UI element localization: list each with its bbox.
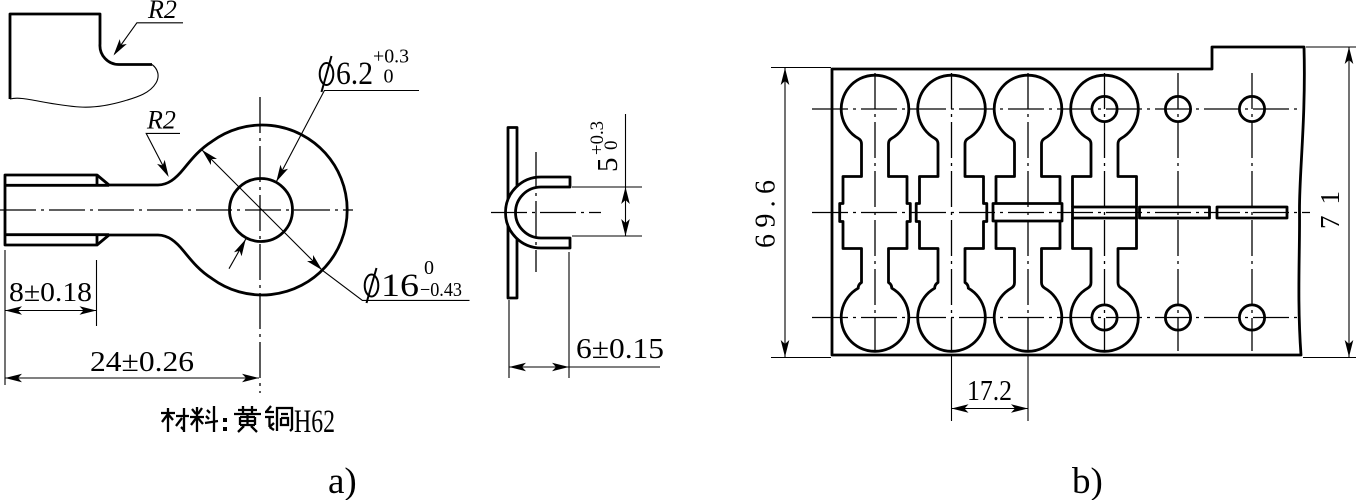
- centerline column 5: [1177, 73, 1179, 351]
- parting slot rectangle station 4: [1073, 207, 1137, 218]
- bent flange inner edge bottom: [5, 233, 109, 236]
- material text: [161, 404, 335, 440]
- svg-text:b): b): [1072, 461, 1103, 500]
- centerline column 1: [874, 73, 876, 351]
- R2 label detail: [110, 0, 183, 58]
- svg-text:−0.43: −0.43: [420, 279, 462, 301]
- svg-text:24±0.26: 24±0.26: [90, 346, 194, 378]
- detail view top-left corner blank: [10, 14, 158, 107]
- punched slot contour top half station 4: [1071, 75, 1139, 207]
- bent flange inner edge top: [5, 184, 109, 187]
- pilot hole station 5 top: [1165, 96, 1190, 121]
- side view flat blank plate: [508, 128, 517, 299]
- svg-text:6.2: 6.2: [336, 56, 373, 92]
- parting slot rectangle station 6: [1217, 207, 1287, 218]
- phi6.2 dimension: [229, 46, 419, 269]
- pilot hole station 6 bottom: [1239, 305, 1264, 330]
- svg-text:6±0.15: 6±0.15: [576, 333, 664, 365]
- centerline vertical side view: [535, 152, 537, 272]
- centerline horizontal side view: [491, 212, 601, 214]
- punched slot contour bottom half station 3: [994, 221, 1062, 351]
- 6 +-0.15 dimension: [509, 252, 664, 378]
- centerline bottom row: [812, 317, 1300, 319]
- centerline vertical of head: [259, 97, 261, 393]
- svg-text:a): a): [328, 461, 357, 500]
- parting slot rectangle station 5: [1140, 207, 1210, 218]
- 8 +-0.18 dimension: [5, 250, 97, 385]
- tong: [265, 406, 274, 430]
- centerline column 4: [1104, 73, 1106, 351]
- centerline horizontal of part: [0, 209, 353, 211]
- cai: [161, 408, 175, 432]
- centerline column 3 (extends for 17.2 dim): [1027, 73, 1029, 351]
- 5 +0.3/0 dimension: [572, 114, 642, 236]
- flange end face bottom: [96, 235, 99, 245]
- 24 +-0.26 dimension: [5, 346, 259, 382]
- svg-text:H62: H62: [294, 404, 335, 440]
- pilot hole station 4 top: [1092, 96, 1117, 121]
- flange end face top: [96, 175, 99, 185]
- svg-text:17.2: 17.2: [967, 376, 1012, 407]
- centerline strip middle: [812, 212, 1310, 214]
- svg-text:5: 5: [592, 158, 624, 173]
- punched slot contour station 2: [916, 75, 987, 351]
- svg-text:69.6: 69.6: [751, 180, 782, 248]
- pilot hole station 5 bottom: [1165, 305, 1190, 330]
- 17.2 dimension: [952, 355, 1029, 421]
- centerline column 6: [1251, 73, 1253, 351]
- punched slot contour top half station 3: [994, 75, 1062, 203]
- svg-text:R2: R2: [147, 0, 177, 24]
- svg-text:R2: R2: [146, 106, 176, 135]
- svg-text:16: 16: [381, 268, 419, 304]
- svg-text:+0.3: +0.3: [373, 46, 409, 68]
- R2 label main: [146, 106, 180, 179]
- centerline column 2 (extends for 17.2 dim): [951, 73, 953, 351]
- punched slot contour station 1: [840, 75, 911, 351]
- hole phi6.2: [230, 179, 293, 242]
- side view U-bend profile: [505, 177, 570, 248]
- part outline: tab, neck and round head: [5, 125, 347, 295]
- side view U-bend blank-out: [505, 177, 570, 248]
- svg-text:0: 0: [424, 257, 434, 279]
- strip outline: [832, 47, 1304, 355]
- parting slot rectangle station 3: [993, 204, 1062, 222]
- punched slot contour bottom half station 4: [1071, 218, 1139, 351]
- svg-text:8±0.18: 8±0.18: [9, 277, 92, 307]
- 69.6 dimension: [751, 68, 832, 358]
- phi16 dimension: [199, 147, 470, 304]
- huang: [234, 406, 261, 432]
- liao: [190, 407, 204, 432]
- 71 dimension: [1303, 47, 1356, 358]
- pilot hole station 6 top: [1239, 96, 1264, 121]
- centerline top row: [812, 108, 1300, 110]
- colon: [223, 418, 227, 422]
- pilot hole station 4 bottom: [1092, 305, 1117, 330]
- svg-text:0: 0: [601, 141, 622, 151]
- svg-text:0: 0: [384, 66, 394, 88]
